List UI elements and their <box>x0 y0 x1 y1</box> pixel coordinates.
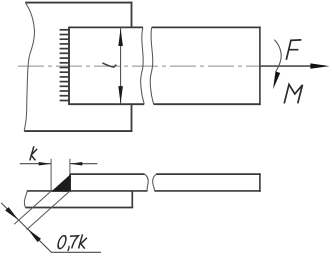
extension line k left <box>50 159 52 191</box>
k dim arrow (points left) <box>70 162 82 166</box>
interface line (bar bottom / plate top, left of break) <box>27 190 148 192</box>
plate bottom edge <box>24 130 132 132</box>
centerline (axis) <box>18 65 262 67</box>
shaft top edge (right of break) <box>152 26 261 28</box>
label 0,7k <box>57 234 87 251</box>
k dimension line left segment <box>20 163 51 165</box>
weld seam comb ticks <box>60 30 69 101</box>
dimension line l (vertical) <box>120 28 122 104</box>
moment M arrowhead <box>273 71 280 89</box>
lower plate right edge <box>131 191 133 208</box>
upper bar top edge (left of break) <box>70 173 145 175</box>
bar break curve 2 <box>153 174 157 191</box>
upper bar top edge (right of break) <box>156 173 261 175</box>
throat arrow 1 (points down-right at line A) <box>5 207 19 220</box>
weld fillet (filled triangle) <box>51 174 71 192</box>
force F arrowhead <box>310 63 329 68</box>
shaft bottom edge (right of break) <box>154 103 261 105</box>
label F <box>286 40 301 60</box>
k dimension line right segment <box>70 163 98 165</box>
bar break curve 1 <box>145 174 149 191</box>
plate right edge (lower part) <box>131 104 133 131</box>
bar bottom edge (right of break) <box>155 190 261 192</box>
throat extension line B (through corner) <box>27 191 70 230</box>
upper bar right end <box>259 173 261 192</box>
plate right edge (upper part) <box>131 2 133 28</box>
shaft left end / weld line <box>68 27 70 105</box>
label M <box>284 84 302 103</box>
moment M arc <box>274 40 281 72</box>
shaft top edge (left of break) <box>69 26 143 28</box>
lower plate left break (wavy) edge <box>24 191 27 208</box>
dim arrowhead up <box>118 28 123 46</box>
force F arrow line <box>261 65 312 67</box>
throat extension line A (hypotenuse extended) <box>14 191 51 224</box>
shaft right end face <box>259 27 261 106</box>
shaft break curve 2 <box>150 27 153 104</box>
lower plate bottom edge <box>25 207 133 209</box>
throat arrow 2 (points up-left at line B) <box>28 229 42 242</box>
k dim arrow (points right) <box>39 162 51 166</box>
label k <box>30 146 37 160</box>
dim arrowhead down <box>118 86 123 104</box>
label l (rotated italic l) <box>102 63 116 67</box>
shaft bottom edge (left of break) <box>69 103 144 105</box>
plate top edge <box>25 2 132 4</box>
plate left break (wavy) edge <box>24 3 34 131</box>
shaft break curve 1 <box>141 27 145 104</box>
upper bar left edge <box>69 174 71 191</box>
throat dimension line / leader <box>1 203 101 252</box>
extension line k right <box>69 159 71 174</box>
